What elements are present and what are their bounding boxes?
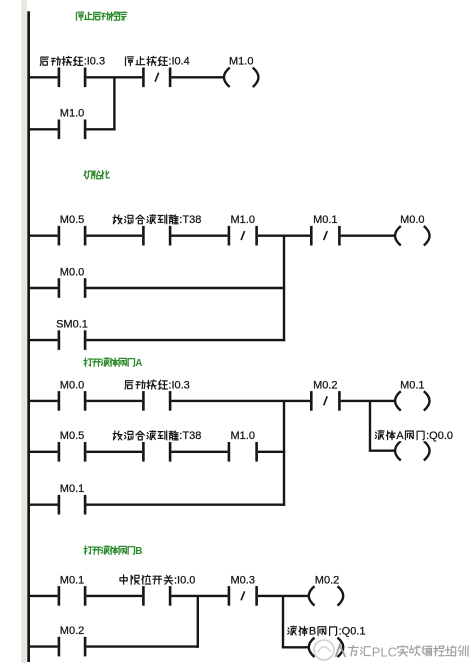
svg-text:M0.0: M0.0 bbox=[400, 214, 424, 226]
svg-text:M1.0: M1.0 bbox=[60, 108, 84, 120]
svg-text:M0.5: M0.5 bbox=[60, 430, 84, 442]
svg-text:M1.0: M1.0 bbox=[231, 214, 255, 226]
svg-text:A: A bbox=[396, 430, 404, 442]
svg-text:M0.3: M0.3 bbox=[231, 574, 255, 586]
svg-text:SM0.1: SM0.1 bbox=[56, 319, 88, 331]
svg-text:A: A bbox=[135, 358, 142, 369]
svg-text:M0.0: M0.0 bbox=[60, 266, 84, 278]
svg-text:M0.2: M0.2 bbox=[313, 379, 337, 391]
svg-text:M0.1: M0.1 bbox=[60, 483, 84, 495]
svg-text::I0.0: :I0.0 bbox=[174, 574, 195, 586]
svg-text:M1.0: M1.0 bbox=[229, 56, 253, 68]
svg-text:M0.5: M0.5 bbox=[60, 214, 84, 226]
svg-text::Q0.0: :Q0.0 bbox=[426, 430, 453, 442]
svg-text:B: B bbox=[135, 546, 142, 557]
svg-text:M0.1: M0.1 bbox=[313, 214, 337, 226]
svg-text:M0.2: M0.2 bbox=[60, 625, 84, 637]
svg-text::Q0.1: :Q0.1 bbox=[339, 626, 366, 638]
svg-text:M0.2: M0.2 bbox=[315, 574, 339, 586]
svg-text::I0.4: :I0.4 bbox=[168, 56, 189, 68]
svg-text:PLC: PLC bbox=[372, 645, 397, 660]
svg-text::T38: :T38 bbox=[179, 214, 201, 226]
svg-text::T38: :T38 bbox=[179, 430, 201, 442]
svg-text::I0.3: :I0.3 bbox=[84, 56, 105, 68]
svg-text:M0.1: M0.1 bbox=[60, 574, 84, 586]
svg-text:B: B bbox=[309, 626, 316, 638]
svg-text:M0.1: M0.1 bbox=[400, 379, 424, 391]
svg-text::I0.3: :I0.3 bbox=[168, 379, 189, 391]
svg-text:M1.0: M1.0 bbox=[231, 430, 255, 442]
svg-text:M0.0: M0.0 bbox=[60, 379, 84, 391]
